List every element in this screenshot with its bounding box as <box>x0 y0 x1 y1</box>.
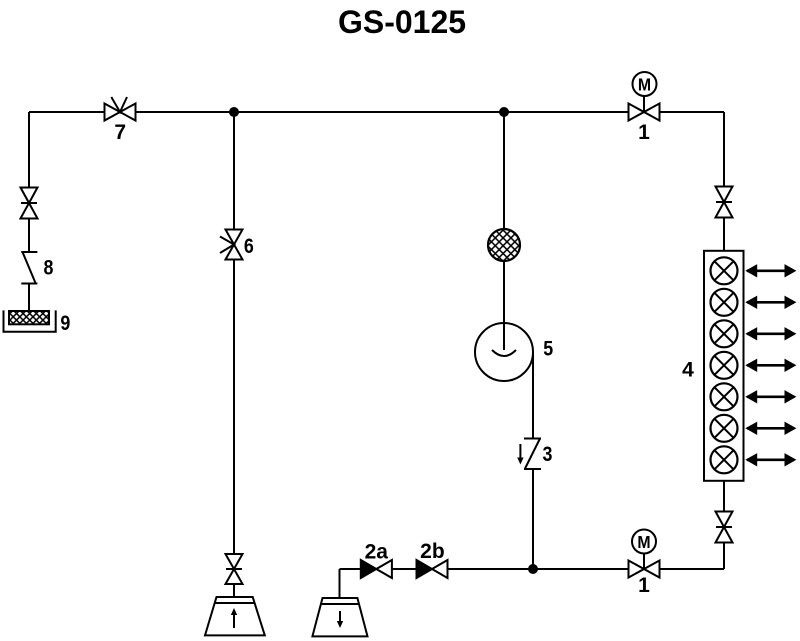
svg-text:5: 5 <box>543 337 553 361</box>
svg-text:GS-0125: GS-0125 <box>338 4 466 40</box>
svg-text:M: M <box>638 75 651 95</box>
svg-text:6: 6 <box>244 235 254 259</box>
svg-text:7: 7 <box>114 121 126 144</box>
svg-text:M: M <box>637 532 650 552</box>
svg-text:2b: 2b <box>420 540 445 563</box>
svg-text:8: 8 <box>44 256 54 280</box>
svg-text:9: 9 <box>60 312 70 336</box>
svg-text:2a: 2a <box>365 540 389 563</box>
svg-text:1: 1 <box>638 121 650 144</box>
svg-text:3: 3 <box>542 443 552 467</box>
svg-text:4: 4 <box>682 359 694 382</box>
svg-text:1: 1 <box>638 574 650 597</box>
